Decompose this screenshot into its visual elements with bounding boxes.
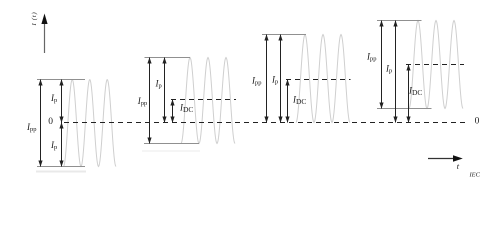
- svg-text:0: 0: [475, 116, 480, 126]
- dimension Ip group 2: [164, 58, 166, 123]
- svg-text:Ipp: Ipp: [137, 96, 148, 107]
- wave sine 4: [409, 21, 463, 109]
- group 4 DC dashed level: [406, 64, 464, 66]
- dimension Ip lower group 1: [61, 123, 63, 167]
- svg-text:Ip: Ip: [50, 140, 57, 151]
- group 2 DC dashed level: [171, 99, 236, 101]
- dimension Idc group 4: [408, 65, 410, 123]
- svg-text:0: 0: [48, 117, 53, 127]
- group 3 top extension line: [262, 34, 306, 36]
- dimension Ipp group 2: [149, 58, 151, 144]
- scan shadow under group 1: [36, 171, 86, 173]
- dimension Ipp group 1: [40, 80, 42, 167]
- group 1 bottom extension line: [37, 166, 85, 168]
- wave sine 3: [296, 35, 350, 123]
- wave sine 2: [181, 58, 235, 144]
- svg-text:IDC: IDC: [408, 86, 422, 98]
- group 1 top extension line: [37, 79, 85, 81]
- svg-text:t: t: [457, 161, 460, 171]
- wave sine 1: [64, 80, 117, 167]
- svg-text:IEC: IEC: [469, 172, 481, 179]
- dimension Ip group 3: [280, 35, 282, 123]
- zero dashed line: [64, 122, 467, 124]
- dimension Idc group 2: [172, 100, 174, 123]
- svg-text:Ipp: Ipp: [26, 122, 37, 133]
- dimension Ip group 4: [395, 21, 397, 123]
- svg-text:Ipp: Ipp: [366, 52, 377, 63]
- svg-text:Ipp: Ipp: [251, 76, 262, 87]
- axis I(t) arrow: [31, 12, 48, 53]
- scan shadow under group 2: [142, 150, 200, 152]
- group 2 bottom extension line: [144, 143, 199, 145]
- dimension Ipp group 3: [266, 35, 268, 123]
- svg-text:IDC: IDC: [179, 103, 193, 115]
- group 4 bottom extension line: [377, 108, 432, 110]
- svg-text:Ip: Ip: [50, 93, 57, 104]
- group 3 DC dashed level: [286, 79, 351, 81]
- group 4 top extension line: [377, 20, 422, 22]
- dimension Ipp group 4: [381, 21, 383, 109]
- svg-text:IDC: IDC: [292, 95, 306, 107]
- group 2 top extension line: [145, 57, 191, 59]
- svg-text:Ip: Ip: [271, 75, 278, 86]
- time axis arrow: [428, 155, 463, 171]
- svg-text:Ip: Ip: [155, 79, 162, 90]
- dimension Idc group 3: [287, 80, 289, 123]
- svg-text:I (t): I (t): [31, 12, 38, 27]
- dimension Ip upper group 1: [61, 80, 63, 123]
- svg-text:Ip: Ip: [385, 64, 392, 75]
